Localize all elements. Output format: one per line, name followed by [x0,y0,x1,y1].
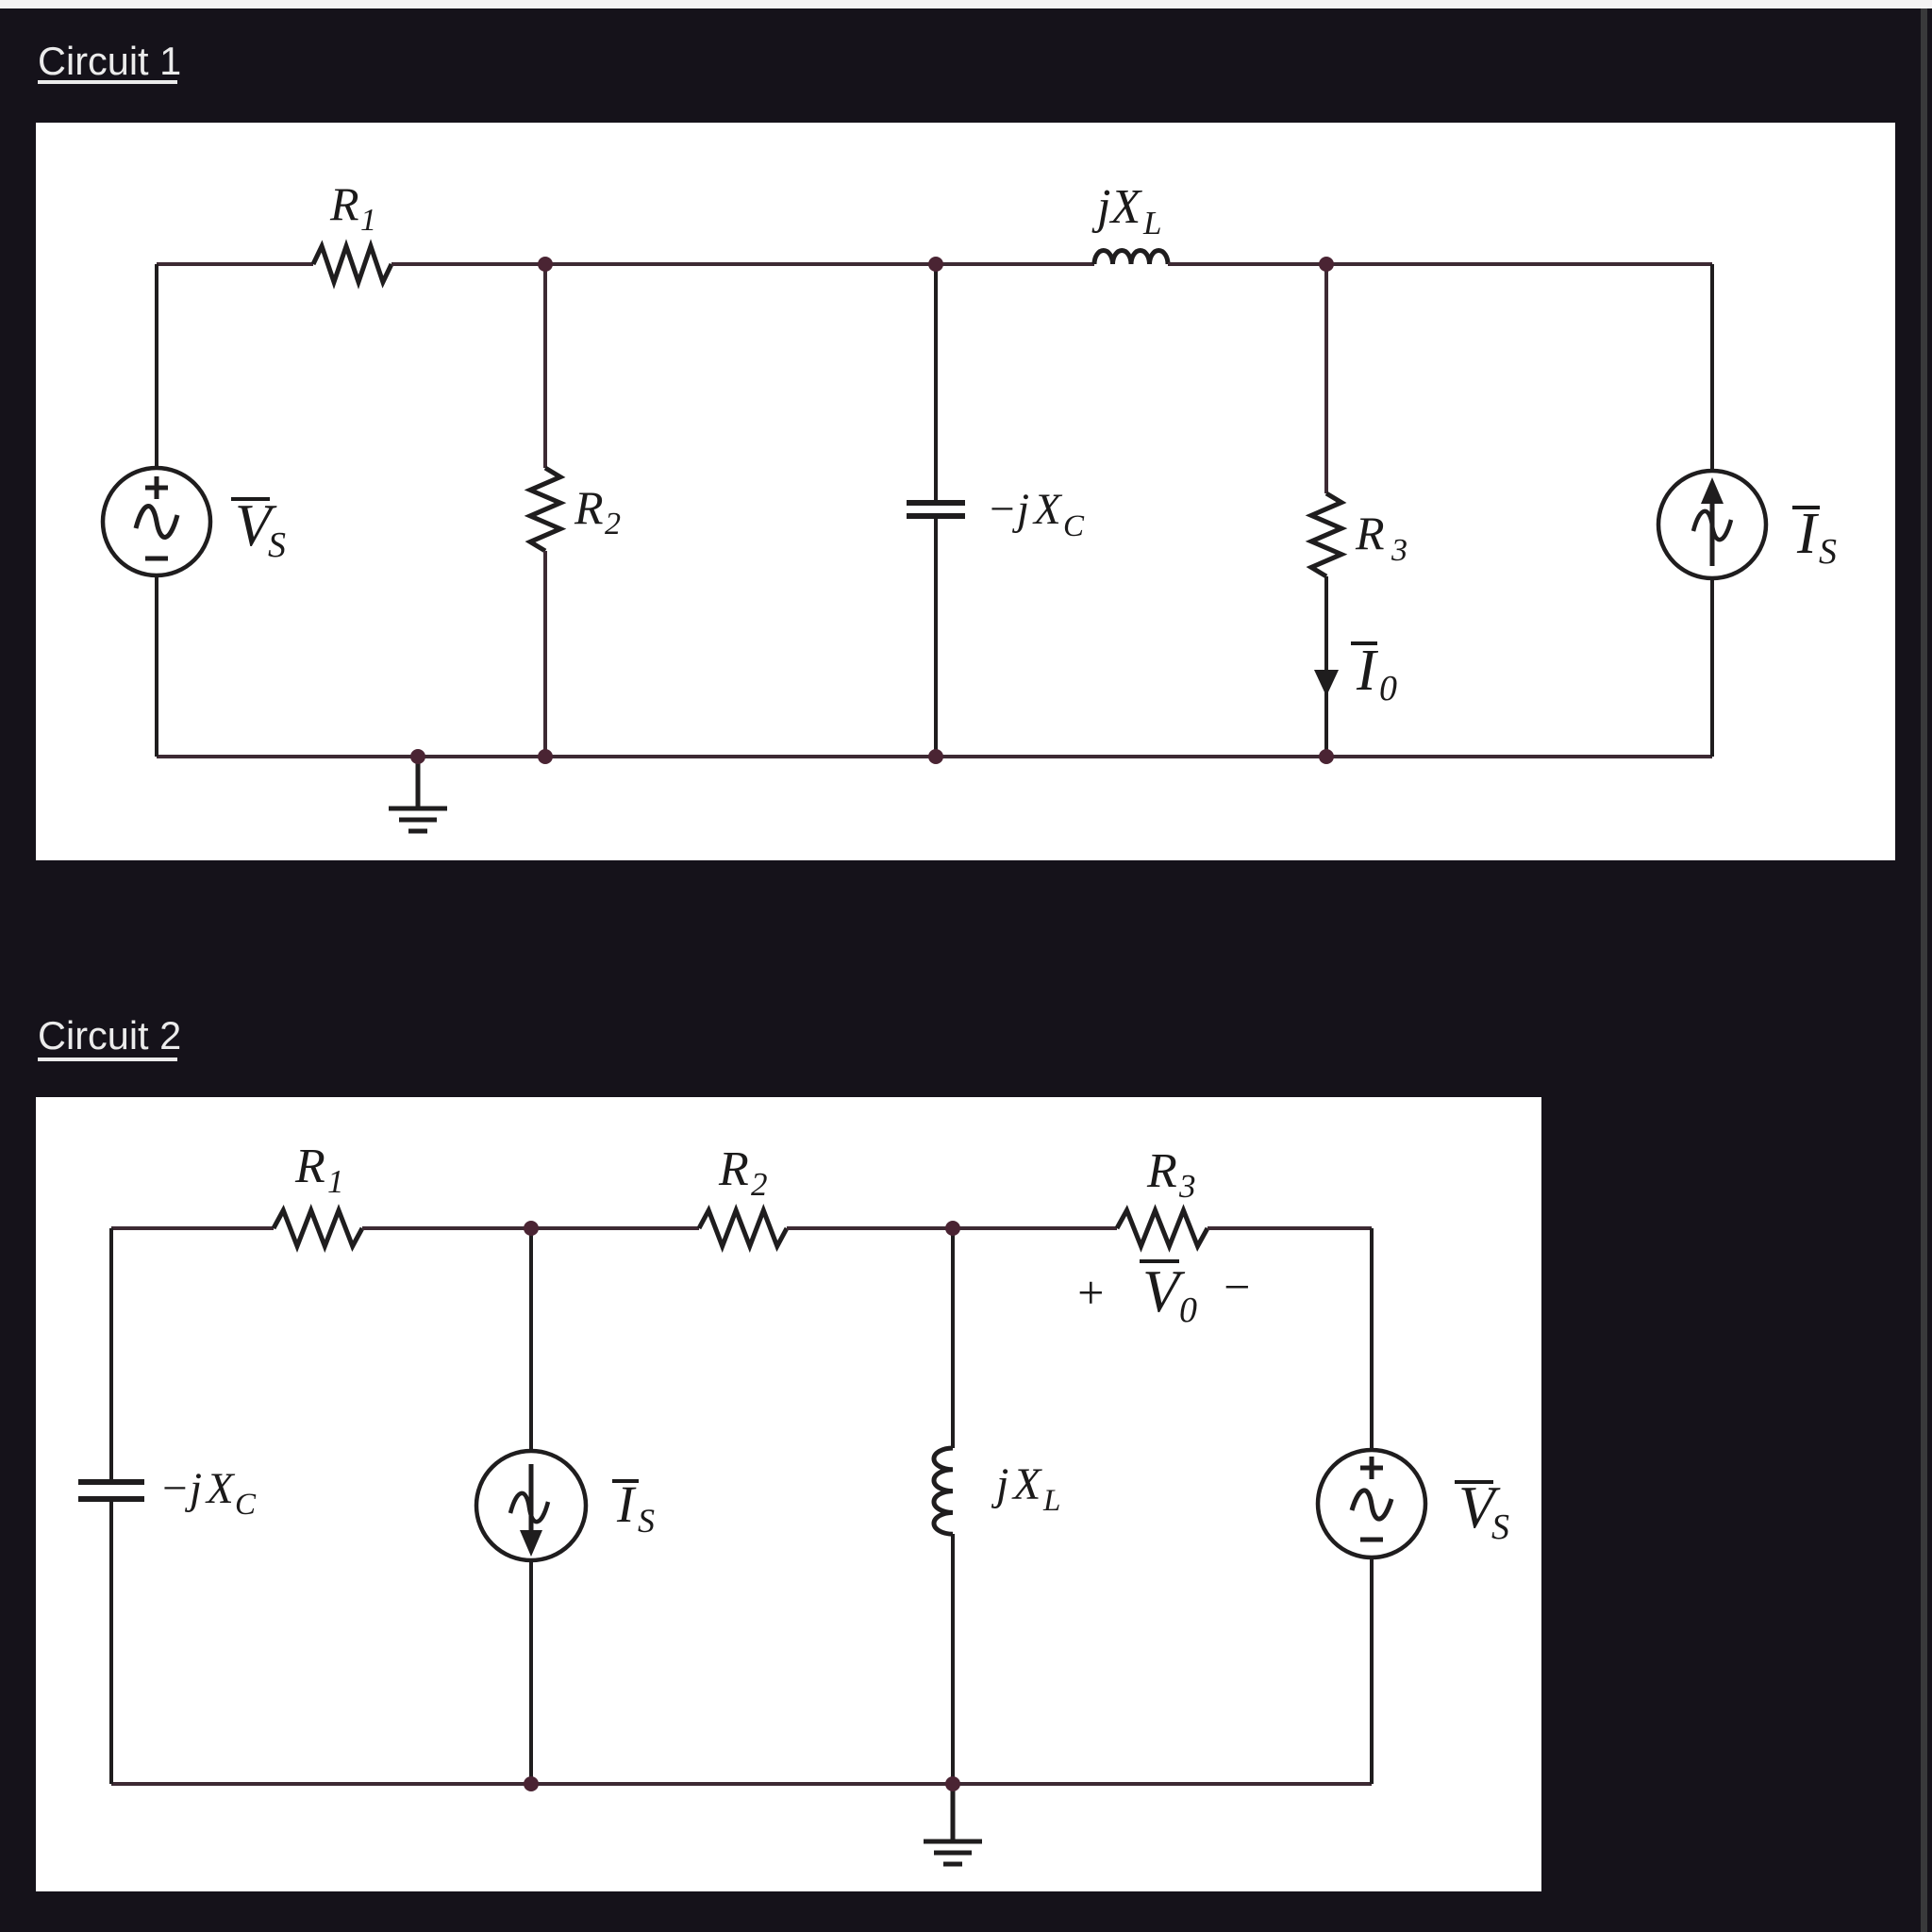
svg-text:X: X [1011,1459,1042,1509]
wire bottom (circuit 2) [111,1782,1372,1786]
wire bottom [157,755,1712,758]
svg-text:I: I [616,1475,637,1533]
wire branch R3 lower with current arrow I0 [1324,576,1328,757]
wire top segment c [787,1226,1117,1230]
current source IS (circuit 1) [1658,471,1766,578]
svg-text:C: C [235,1488,257,1522]
inductor jXL [1094,251,1168,265]
wire top middle segment [391,262,1094,266]
wire top segment b [362,1226,699,1230]
wire left branch lower [155,575,158,757]
svg-text:L: L [1142,205,1161,241]
svg-text:0: 0 [1379,669,1397,708]
wire right branch lower (circuit 2) [1370,1557,1374,1784]
resistor R3 [1311,493,1341,576]
node R2 top [538,257,553,272]
node capacitor top [928,257,943,272]
capacitor -jXC (circuit 1) [907,500,965,506]
resistor R1 (circuit 2) [274,1210,362,1246]
voltage source VS (circuit 2) [1318,1450,1425,1557]
svg-text:I: I [1796,502,1820,566]
node capacitor bottom [928,749,943,764]
node IS top (circuit 2) [524,1221,539,1236]
wire right branch upper [1710,264,1714,471]
svg-text:S: S [1491,1507,1509,1547]
ground (circuit 2) [951,1784,956,1840]
wire left branch lower (circuit 2) [109,1499,113,1784]
wire top segment a [111,1226,274,1230]
label IS (circuit 2) [612,1479,639,1483]
resistor R2 [530,468,560,551]
svg-text:+: + [1074,1266,1107,1319]
svg-text:X: X [1032,485,1063,534]
svg-text:R: R [574,481,604,534]
wire right branch upper (circuit 2) [1370,1228,1374,1451]
wire right branch lower [1710,578,1714,757]
node R3 bottom [1319,749,1334,764]
svg-text:I: I [1356,639,1379,703]
label I0 [1351,641,1377,645]
wire branch capacitor lower [934,516,938,757]
svg-text:j: j [991,1459,1008,1509]
wire branch R2 lower [543,551,547,757]
svg-text:−: − [159,1464,190,1513]
wire left branch upper [155,264,158,468]
wire top segment d [1207,1226,1372,1230]
svg-text:1: 1 [327,1163,344,1200]
svg-text:3: 3 [1178,1168,1196,1205]
wire branch capacitor upper [934,264,938,503]
svg-text:R: R [329,177,359,230]
svg-text:L: L [1042,1484,1060,1518]
wire IS branch upper (circuit 2) [529,1228,533,1451]
wire left branch upper (circuit 2) [109,1228,113,1482]
node inductor top (circuit 2) [945,1221,960,1236]
current source IS (circuit 2) [476,1451,586,1560]
label VS (circuit 2) [1455,1480,1493,1484]
node inductor bottom / ground (circuit 2) [945,1776,960,1791]
svg-text:0: 0 [1179,1291,1197,1330]
svg-text:R: R [1355,507,1385,559]
svg-text:−: − [987,485,1017,534]
node IS bottom (circuit 2) [524,1776,539,1791]
inductor jXL (circuit 2) [934,1448,953,1534]
label VS (circuit 1) [231,497,270,501]
svg-text:X: X [205,1464,236,1513]
wire branch R2 upper [543,264,547,468]
capacitor -jXC (circuit 2) [78,1479,144,1485]
svg-text:3: 3 [1391,533,1407,568]
node R3 top [1319,257,1334,272]
svg-text:C: C [1063,509,1085,543]
wire inductor branch lower (circuit 2) [951,1534,955,1784]
svg-text:2: 2 [751,1166,768,1203]
wire branch R3 upper [1324,264,1328,493]
svg-text:R: R [718,1142,749,1196]
wire top-right segment [1168,262,1712,266]
svg-text:jX: jX [1091,180,1142,234]
node R2 bottom [538,749,553,764]
wire inductor branch upper (circuit 2) [951,1228,955,1448]
label IS (circuit 1) [1792,506,1820,509]
svg-text:S: S [638,1502,655,1540]
svg-text:R: R [294,1140,325,1193]
node ground [410,749,425,764]
voltage source VS (circuit 1) [103,468,210,575]
svg-text:R: R [1146,1144,1177,1198]
resistor R1 [313,246,391,282]
svg-text:2: 2 [605,507,621,541]
ground (circuit 1) [416,757,421,808]
svg-text:1: 1 [360,203,376,238]
svg-text:S: S [268,525,286,565]
resistor R3 (circuit 2) [1117,1210,1207,1246]
svg-text:−: − [1221,1260,1253,1313]
resistor R2 (circuit 2) [699,1210,787,1246]
svg-text:S: S [1819,532,1837,572]
wire IS branch lower (circuit 2) [529,1560,533,1784]
wire top-left segment [157,262,313,266]
